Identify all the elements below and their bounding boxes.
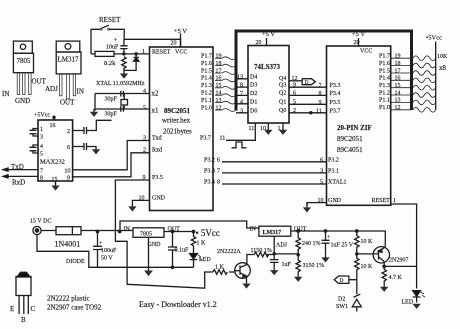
svg-text:12: 12 xyxy=(216,105,222,111)
svg-text:P1.5: P1.5 xyxy=(379,68,390,74)
svg-text:Q2: Q2 xyxy=(279,91,286,97)
svg-text:Q3: Q3 xyxy=(279,82,286,88)
svg-text:15: 15 xyxy=(52,177,58,183)
svg-text:12: 12 xyxy=(395,105,401,111)
svg-text:GND: GND xyxy=(148,242,162,248)
svg-text:20: 20 xyxy=(256,40,262,46)
svg-text:P3.7: P3.7 xyxy=(200,136,211,142)
svg-text:15 V DC: 15 V DC xyxy=(30,219,51,225)
svg-text:Q0: Q0 xyxy=(279,108,286,114)
svg-text:13: 13 xyxy=(216,98,222,104)
svg-text:9: 9 xyxy=(293,82,296,88)
svg-text:3: 3 xyxy=(320,168,323,175)
svg-text:10 K: 10 K xyxy=(361,239,374,245)
svg-text:+5Vcc: +5Vcc xyxy=(34,113,50,119)
svg-text:14: 14 xyxy=(395,90,401,96)
svg-text:100uF: 100uF xyxy=(101,248,117,254)
svg-text:P1.7: P1.7 xyxy=(201,54,212,60)
svg-text:11: 11 xyxy=(249,126,255,132)
svg-text:P1.4: P1.4 xyxy=(201,76,212,82)
svg-text:11: 11 xyxy=(316,108,322,114)
svg-text:1: 1 xyxy=(142,49,145,55)
svg-text:13: 13 xyxy=(237,74,243,80)
svg-text:D2: D2 xyxy=(250,91,257,97)
svg-text:50 V: 50 V xyxy=(101,256,113,262)
svg-text:RESET: RESET xyxy=(152,50,171,56)
svg-text:1: 1 xyxy=(40,127,43,133)
svg-text:7805: 7805 xyxy=(17,57,32,65)
svg-text:1N4001: 1N4001 xyxy=(55,240,81,249)
svg-text:P1.3: P1.3 xyxy=(379,83,390,89)
svg-text:P3.7: P3.7 xyxy=(330,108,341,114)
svg-text:0.1uF: 0.1uF xyxy=(175,248,190,254)
svg-text:GND: GND xyxy=(15,97,30,105)
svg-text:IN: IN xyxy=(124,227,131,233)
svg-text:15: 15 xyxy=(395,83,401,89)
svg-text:Q1: Q1 xyxy=(279,100,286,106)
svg-text:6: 6 xyxy=(67,145,70,151)
svg-text:3150 1%: 3150 1% xyxy=(303,263,325,269)
svg-text:89C2051: 89C2051 xyxy=(337,135,363,143)
svg-text:2: 2 xyxy=(143,148,146,154)
svg-text:OUT: OUT xyxy=(168,227,181,233)
svg-text:3: 3 xyxy=(240,108,243,114)
svg-text:D1: D1 xyxy=(250,99,257,105)
svg-text:x8: x8 xyxy=(439,64,447,72)
svg-text:OUT: OUT xyxy=(294,227,307,233)
svg-text:P3.5: P3.5 xyxy=(330,100,341,106)
svg-text:19: 19 xyxy=(395,54,401,60)
svg-text:P3.2: P3.2 xyxy=(328,157,339,163)
svg-text:15: 15 xyxy=(216,83,222,89)
svg-text:1uF 25 V: 1uF 25 V xyxy=(331,243,354,249)
svg-text:20: 20 xyxy=(354,40,360,46)
svg-text:19: 19 xyxy=(216,54,222,60)
svg-text:89C4051: 89C4051 xyxy=(337,146,363,154)
svg-text:20-PIN ZIF: 20-PIN ZIF xyxy=(337,124,372,132)
svg-text:8: 8 xyxy=(240,83,243,89)
svg-text:5: 5 xyxy=(40,152,43,158)
svg-text:6: 6 xyxy=(320,157,323,163)
svg-text:P3.1: P3.1 xyxy=(328,168,339,174)
svg-text:D: D xyxy=(340,278,344,284)
svg-text:XTAL1: XTAL1 xyxy=(328,180,347,186)
svg-text:14: 14 xyxy=(216,91,222,97)
svg-text:P3.3: P3.3 xyxy=(330,83,341,89)
svg-text:1uF: 1uF xyxy=(282,262,292,268)
svg-text:RESET: RESET xyxy=(372,198,391,204)
svg-text:P1.5: P1.5 xyxy=(201,68,212,74)
svg-text:5: 5 xyxy=(143,106,146,112)
svg-text:2N2222 plastic: 2N2222 plastic xyxy=(47,295,90,303)
svg-text:P1.6: P1.6 xyxy=(379,61,390,67)
svg-text:MAX232: MAX232 xyxy=(40,159,65,166)
svg-text:P3.5: P3.5 xyxy=(152,175,163,181)
svg-text:D0: D0 xyxy=(250,108,257,114)
svg-text:D4: D4 xyxy=(250,74,257,80)
svg-text:16: 16 xyxy=(395,76,401,82)
svg-text:IN: IN xyxy=(250,227,257,233)
svg-text:30pF: 30pF xyxy=(105,112,118,118)
svg-text:4: 4 xyxy=(143,89,146,95)
svg-text:7: 7 xyxy=(40,169,43,175)
svg-text:P1.0: P1.0 xyxy=(201,105,212,111)
svg-text:P1.4: P1.4 xyxy=(379,76,390,82)
svg-text:2021bytes: 2021bytes xyxy=(163,128,192,136)
svg-text:P1.2: P1.2 xyxy=(379,90,390,96)
svg-text:7: 7 xyxy=(217,168,220,174)
svg-text:VCC: VCC xyxy=(360,49,372,55)
svg-text:E: E xyxy=(10,305,14,313)
svg-text:P3.4: P3.4 xyxy=(330,91,341,97)
svg-text:P1.1: P1.1 xyxy=(379,98,390,104)
svg-text:• 5Vcc: • 5Vcc xyxy=(196,228,220,238)
svg-text:+5 V: +5 V xyxy=(262,31,275,38)
svg-text:P1.1: P1.1 xyxy=(201,98,212,104)
svg-text:10 K: 10 K xyxy=(361,264,374,270)
svg-text:3: 3 xyxy=(143,136,146,142)
svg-text:P3.4: P3.4 xyxy=(204,180,215,186)
svg-text:P1.6: P1.6 xyxy=(201,61,212,67)
svg-text:+5 V: +5 V xyxy=(174,28,187,35)
svg-text:10: 10 xyxy=(318,198,324,204)
svg-text:18: 18 xyxy=(395,61,401,67)
svg-text:4: 4 xyxy=(40,144,43,150)
svg-text:9: 9 xyxy=(143,175,146,181)
svg-text:18: 18 xyxy=(216,61,222,67)
svg-text:P1.7: P1.7 xyxy=(379,54,390,60)
svg-text:12: 12 xyxy=(292,76,298,82)
svg-text:3: 3 xyxy=(40,135,43,141)
svg-text:240 1%: 240 1% xyxy=(302,241,321,247)
svg-text:2N2907 case TO92: 2N2907 case TO92 xyxy=(47,304,102,312)
svg-text:2N2907: 2N2907 xyxy=(389,258,408,264)
svg-text:4: 4 xyxy=(240,99,243,105)
svg-text:LED: LED xyxy=(199,257,211,263)
svg-text:8: 8 xyxy=(319,91,322,97)
svg-text:10uF: 10uF xyxy=(106,45,119,51)
svg-text:XTAL 11.0592MHz: XTAL 11.0592MHz xyxy=(96,81,145,87)
svg-text:10: 10 xyxy=(139,196,145,202)
svg-text:P1.2: P1.2 xyxy=(201,91,212,97)
svg-text:C: C xyxy=(31,305,36,313)
svg-text:10: 10 xyxy=(65,168,71,174)
svg-text:x1: x1 xyxy=(152,107,160,115)
svg-text:DIODE: DIODE xyxy=(66,259,85,265)
svg-text:Q4: Q4 xyxy=(279,76,286,82)
svg-text:D3: D3 xyxy=(250,83,257,89)
svg-text:4.7 K: 4.7 K xyxy=(389,275,403,281)
svg-text:8: 8 xyxy=(217,180,220,186)
svg-text:ADJ: ADJ xyxy=(45,85,58,93)
svg-text:P3.3: P3.3 xyxy=(204,168,215,174)
svg-text:9: 9 xyxy=(67,175,70,181)
svg-text:LM317: LM317 xyxy=(263,230,282,236)
svg-text:IN: IN xyxy=(2,90,9,98)
svg-text:B: B xyxy=(21,316,26,324)
svg-text:6: 6 xyxy=(217,157,220,163)
svg-text:•5Vcc: •5Vcc xyxy=(426,35,442,42)
svg-text:D2: D2 xyxy=(338,297,345,303)
svg-text:1: 1 xyxy=(393,198,396,204)
svg-text:GND: GND xyxy=(152,196,166,202)
svg-text:89C2051: 89C2051 xyxy=(164,107,191,115)
svg-text:8: 8 xyxy=(40,176,43,182)
svg-text:1150 1%: 1150 1% xyxy=(251,248,272,254)
svg-text:16: 16 xyxy=(216,76,222,82)
svg-text:D: D xyxy=(305,80,309,86)
svg-text:1 K: 1 K xyxy=(197,241,207,247)
svg-text:RESET: RESET xyxy=(99,16,121,24)
svg-text:writer.hex: writer.hex xyxy=(162,117,191,125)
svg-text:16: 16 xyxy=(50,123,56,129)
svg-text:LM317: LM317 xyxy=(58,56,80,64)
svg-text:5: 5 xyxy=(320,180,323,186)
svg-text:RxD: RxD xyxy=(12,179,25,187)
svg-text:10K: 10K xyxy=(437,54,448,60)
svg-text:IN: IN xyxy=(77,88,84,96)
svg-text:1 K: 1 K xyxy=(215,265,225,271)
svg-text:+5 V: +5 V xyxy=(352,31,365,38)
svg-text:2: 2 xyxy=(67,129,70,135)
svg-text:Rxd: Rxd xyxy=(152,148,162,154)
svg-text:GND: GND xyxy=(328,198,342,204)
svg-text:5: 5 xyxy=(293,100,296,106)
svg-text:13: 13 xyxy=(395,98,401,104)
svg-text:6: 6 xyxy=(293,91,296,97)
svg-text:P3.2: P3.2 xyxy=(204,157,215,163)
svg-text:9: 9 xyxy=(319,100,322,106)
svg-text:P1.0: P1.0 xyxy=(379,105,390,111)
svg-text:SW1: SW1 xyxy=(336,304,348,310)
svg-text:Txd: Txd xyxy=(152,136,162,142)
svg-text:11: 11 xyxy=(220,136,226,142)
svg-text:7: 7 xyxy=(240,91,243,97)
svg-text:17: 17 xyxy=(216,68,222,74)
svg-text:20: 20 xyxy=(171,41,177,47)
svg-text:2N2222A: 2N2222A xyxy=(217,249,241,255)
svg-text:ADJ: ADJ xyxy=(276,243,288,249)
svg-text:x2: x2 xyxy=(152,90,160,98)
svg-text:1: 1 xyxy=(278,126,281,132)
svg-text:7805: 7805 xyxy=(140,232,152,238)
svg-text:30pF: 30pF xyxy=(105,97,118,103)
svg-text:10: 10 xyxy=(260,126,266,132)
svg-text:74LS373: 74LS373 xyxy=(254,63,281,71)
svg-text:OUT: OUT xyxy=(60,99,75,107)
svg-text:Easy - Downloader v1.2: Easy - Downloader v1.2 xyxy=(139,300,217,309)
svg-text:7: 7 xyxy=(319,83,322,89)
svg-text:8.2k: 8.2k xyxy=(104,60,116,67)
svg-text:TxD: TxD xyxy=(11,163,24,171)
svg-text:LED: LED xyxy=(402,300,414,306)
svg-text:+: + xyxy=(114,37,118,44)
svg-text:2: 2 xyxy=(293,108,296,114)
svg-text:P1.3: P1.3 xyxy=(201,83,212,89)
svg-text:17: 17 xyxy=(395,68,401,74)
svg-text:VCC: VCC xyxy=(175,50,187,56)
